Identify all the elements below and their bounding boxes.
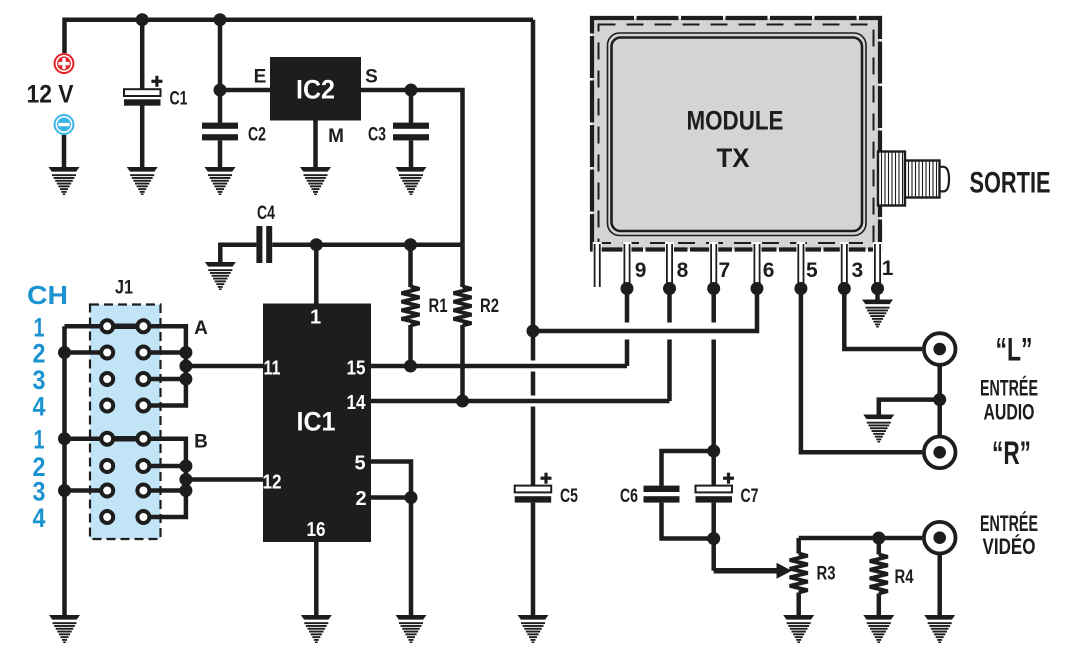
ground: left bus	[49, 615, 80, 643]
svg-text:A: A	[194, 318, 208, 339]
wire: audio ground tap	[879, 400, 940, 415]
svg-text:VIDÉO: VIDÉO	[983, 534, 1036, 559]
svg-text:C2: C2	[248, 125, 266, 146]
node: module pin 6	[751, 282, 764, 295]
svg-text:7: 7	[719, 259, 731, 282]
wire: junction down to wiper arrow	[711, 539, 716, 571]
wire: module pin 5 to R audio jack	[801, 289, 922, 453]
node: module pin 5	[794, 282, 807, 295]
battery plus terminal	[54, 53, 75, 74]
jumper on row A1	[107, 324, 143, 330]
wire: C4 left to ground	[220, 245, 256, 263]
node: bus A2	[58, 346, 71, 359]
node: module pin 1	[871, 282, 884, 295]
svg-text:3: 3	[851, 259, 863, 282]
capacitor C7 (polarized)	[696, 473, 735, 503]
svg-text:IC2: IC2	[296, 75, 335, 105]
IC U1 body IC1	[263, 304, 371, 543]
svg-text:SORTIE: SORTIE	[970, 167, 1051, 200]
module pin stub 8	[665, 242, 674, 288]
ground: IC1 pin 16	[301, 615, 332, 643]
wire: C1 top lead	[140, 20, 145, 90]
arrowhead: R3 wiper	[777, 563, 792, 579]
svg-text:2: 2	[355, 488, 366, 510]
wire: module pin 8 to pin14 line (jumps crossing)	[667, 289, 672, 402]
svg-text:R1: R1	[429, 296, 448, 317]
wire: C6 top branch	[662, 451, 714, 486]
svg-text:IC1: IC1	[297, 407, 336, 437]
wire: C4 right to R2 column	[272, 242, 462, 247]
svg-text:B: B	[194, 432, 208, 453]
capacitor C2	[202, 123, 238, 141]
wire: C6 bottom branch	[662, 503, 714, 539]
wire: IC2 S output	[361, 90, 463, 245]
wire: B bus to IC1 pin 12	[186, 477, 264, 482]
wire: +12V top rail	[65, 20, 534, 53]
module pin stub 7	[709, 242, 718, 288]
svg-text:E: E	[254, 67, 267, 88]
svg-text:C6: C6	[620, 486, 638, 507]
wire: IC2 M to ground	[313, 121, 318, 169]
ground: C2	[205, 167, 236, 195]
wire: IC1 pin 5	[371, 462, 411, 498]
svg-text:4: 4	[33, 392, 46, 422]
ground: R3	[783, 615, 814, 643]
module pin stub 5	[796, 242, 805, 288]
wire: bus to A2 left pin	[65, 350, 108, 355]
ground: C5	[518, 615, 549, 643]
wire: module pin 3 to L audio jack	[844, 289, 922, 350]
node: pin5 pin2 junction	[405, 491, 418, 504]
svg-text:ENTRÉE: ENTRÉE	[980, 376, 1038, 401]
node: E input junction	[214, 84, 227, 97]
svg-text:11: 11	[264, 358, 281, 380]
wire: bus to B3 left pin	[65, 488, 108, 493]
wire: B group right bus	[143, 439, 186, 517]
svg-text:8: 8	[677, 259, 689, 282]
wire: A bus to IC1 pin 11	[186, 364, 264, 369]
node: C6 C7 bottom junction	[707, 532, 720, 545]
node: rail to C2 branch	[214, 13, 227, 26]
svg-text:AUDIO: AUDIO	[984, 400, 1035, 425]
node: module pin 3	[838, 282, 851, 295]
svg-text:R2: R2	[480, 296, 499, 317]
wire: module pin 7 down to C7 (jumps crossing)	[711, 289, 716, 486]
svg-text:“R”: “R”	[992, 435, 1031, 471]
svg-text:2: 2	[33, 339, 46, 369]
svg-text:3: 3	[33, 365, 46, 395]
ground: IC1 pins 5-2	[396, 615, 427, 643]
node: C3 on S line	[405, 84, 418, 97]
wire: pin2 node to ground	[409, 498, 414, 616]
wire: module pin 9 to pin15 line (jumps crossing)	[625, 289, 630, 367]
svg-text:1: 1	[34, 425, 45, 455]
regulator IC2	[270, 57, 361, 121]
wire: C5 to ground	[531, 503, 536, 616]
svg-text:C4: C4	[257, 203, 275, 224]
wire: R4 top lead	[877, 538, 882, 555]
ground: 12V	[49, 167, 80, 195]
svg-text:C5: C5	[560, 486, 578, 507]
svg-text:C1: C1	[170, 89, 188, 110]
wire: IC1 pin 14 line	[371, 399, 670, 404]
svg-text:CH: CH	[27, 280, 68, 310]
jumper on row B1	[107, 436, 143, 442]
svg-text:“L”: “L”	[996, 332, 1033, 368]
wire: C3 top lead	[409, 90, 414, 123]
wire: C2 to ground	[218, 141, 223, 169]
node: R1 bottom on pin15 line	[404, 360, 417, 373]
node: bus B1	[58, 432, 71, 445]
module TX shielded box	[592, 18, 880, 250]
connector J1 pins	[101, 320, 149, 523]
wire: R4 bottom to ground	[877, 594, 882, 616]
svg-text:3: 3	[33, 477, 46, 507]
RCA jack video	[924, 522, 956, 554]
svg-text:M: M	[328, 126, 344, 147]
node: B bus pin12 tap	[179, 473, 192, 486]
module pin stub 9	[623, 242, 632, 288]
wire: wiper arrow line to R3	[714, 568, 778, 574]
node: R2 bottom on pin14 line	[456, 395, 469, 408]
wire: IC1 pin 1 lead	[314, 245, 319, 304]
resistor R4	[870, 555, 888, 594]
node: audio ground tap	[933, 393, 946, 406]
wire: IC1 pin 16 to ground	[314, 542, 319, 616]
resistor R1	[402, 287, 420, 326]
resistor R2	[454, 287, 472, 326]
wire: IC1 pin 2	[371, 495, 411, 500]
wire: 12V rail down to C5 (jumps crossings)	[531, 20, 536, 486]
wire: R2 leads	[460, 245, 465, 401]
wire: C7 bottom lead	[711, 503, 716, 539]
svg-text:12: 12	[263, 472, 282, 494]
node: C1 on rail	[136, 13, 149, 26]
battery minus terminal	[54, 114, 75, 135]
svg-text:5: 5	[806, 259, 818, 282]
node: IC1 pin1 on C4 line	[310, 238, 323, 251]
capacitor C6	[644, 486, 680, 503]
ground: C1	[127, 167, 158, 195]
node: bus B3	[58, 484, 71, 497]
wire: R3 bottom to ground	[796, 593, 801, 616]
module pin stub 6	[753, 242, 762, 288]
wire: bus to B1 left pin	[65, 436, 108, 441]
svg-text:6: 6	[763, 259, 775, 282]
label ENTREE AUDIO	[980, 376, 1038, 425]
node: pin7 C6 branch	[707, 445, 720, 458]
label ENTREE VIDEO	[980, 511, 1038, 559]
svg-text:MODULE: MODULE	[687, 106, 784, 136]
svg-text:15: 15	[347, 358, 366, 380]
wire: rail down to C2	[218, 20, 223, 123]
svg-text:1: 1	[310, 307, 321, 329]
node: B bus row2	[179, 460, 192, 473]
wire: bus to A1 left pin	[65, 324, 108, 329]
wire: module pin 6 to 12V feed line	[533, 289, 757, 332]
ground: R4	[863, 615, 894, 643]
svg-text:9: 9	[635, 259, 647, 282]
wire: left bus to ground	[62, 326, 67, 615]
capacitor C4	[256, 226, 272, 263]
svg-text:ENTRÉE: ENTRÉE	[980, 511, 1038, 536]
ground: C4	[205, 262, 236, 290]
wire: E input to IC2	[220, 88, 270, 93]
svg-text:14: 14	[347, 392, 367, 414]
svg-text:5: 5	[354, 453, 365, 475]
wire: video jack to ground	[937, 554, 942, 616]
capacitor C1 (polarized)	[124, 76, 162, 106]
module pin stub 1	[873, 242, 882, 288]
label MODULE TX	[687, 106, 784, 174]
svg-text:S: S	[365, 67, 378, 88]
node: B bus row3	[179, 484, 192, 497]
wire: C3 to ground	[409, 141, 414, 169]
module pin stub 3	[840, 242, 849, 288]
svg-text:J1: J1	[115, 278, 133, 299]
node: module pin 9	[621, 282, 634, 295]
svg-text:1: 1	[882, 257, 894, 280]
ground: module pin 1	[862, 300, 893, 328]
connector J1 body	[90, 305, 161, 540]
RF output connector	[878, 152, 949, 206]
RCA jack R	[924, 437, 956, 469]
svg-text:TX: TX	[717, 143, 750, 173]
svg-text:C7: C7	[741, 486, 759, 507]
potentiometer R3	[790, 554, 808, 593]
wire: A group right bus	[143, 326, 186, 405]
ground: video jack	[924, 615, 955, 643]
node: A bus row2	[179, 346, 192, 359]
capacitor C5 (polarized)	[515, 473, 552, 503]
node: R1 top	[404, 238, 417, 251]
svg-text:C3: C3	[368, 125, 386, 146]
node: R4 tap on video line	[872, 532, 885, 545]
ground: audio	[863, 415, 894, 443]
node: A bus row3	[179, 373, 192, 386]
svg-text:R4: R4	[895, 567, 914, 588]
wire: R3 top lead	[796, 538, 801, 554]
wire: C1 to ground	[140, 106, 145, 169]
module pin stub unlabeled	[593, 242, 602, 287]
svg-text:12 V: 12 V	[27, 81, 74, 109]
node: A bus pin11 tap	[179, 360, 192, 373]
wire: IC1 pin 15 line	[371, 364, 627, 369]
node: 12V feed junction	[527, 325, 540, 338]
wire: L jack to R jack link	[937, 366, 942, 436]
RCA jack L	[924, 333, 956, 365]
ground: C3	[396, 167, 427, 195]
wire: minus terminal to ground	[62, 135, 67, 168]
wire: module pin 1 to ground	[875, 289, 880, 301]
wire: R1 leads	[408, 245, 413, 366]
ground: IC2 M	[300, 167, 331, 195]
svg-text:16: 16	[307, 519, 326, 541]
node: module pin 7	[707, 282, 720, 295]
node: module pin 8	[663, 282, 676, 295]
svg-text:4: 4	[33, 503, 46, 533]
wire: video line R3 to video jack	[799, 536, 922, 541]
capacitor C3	[393, 123, 429, 141]
svg-text:R3: R3	[817, 564, 836, 585]
